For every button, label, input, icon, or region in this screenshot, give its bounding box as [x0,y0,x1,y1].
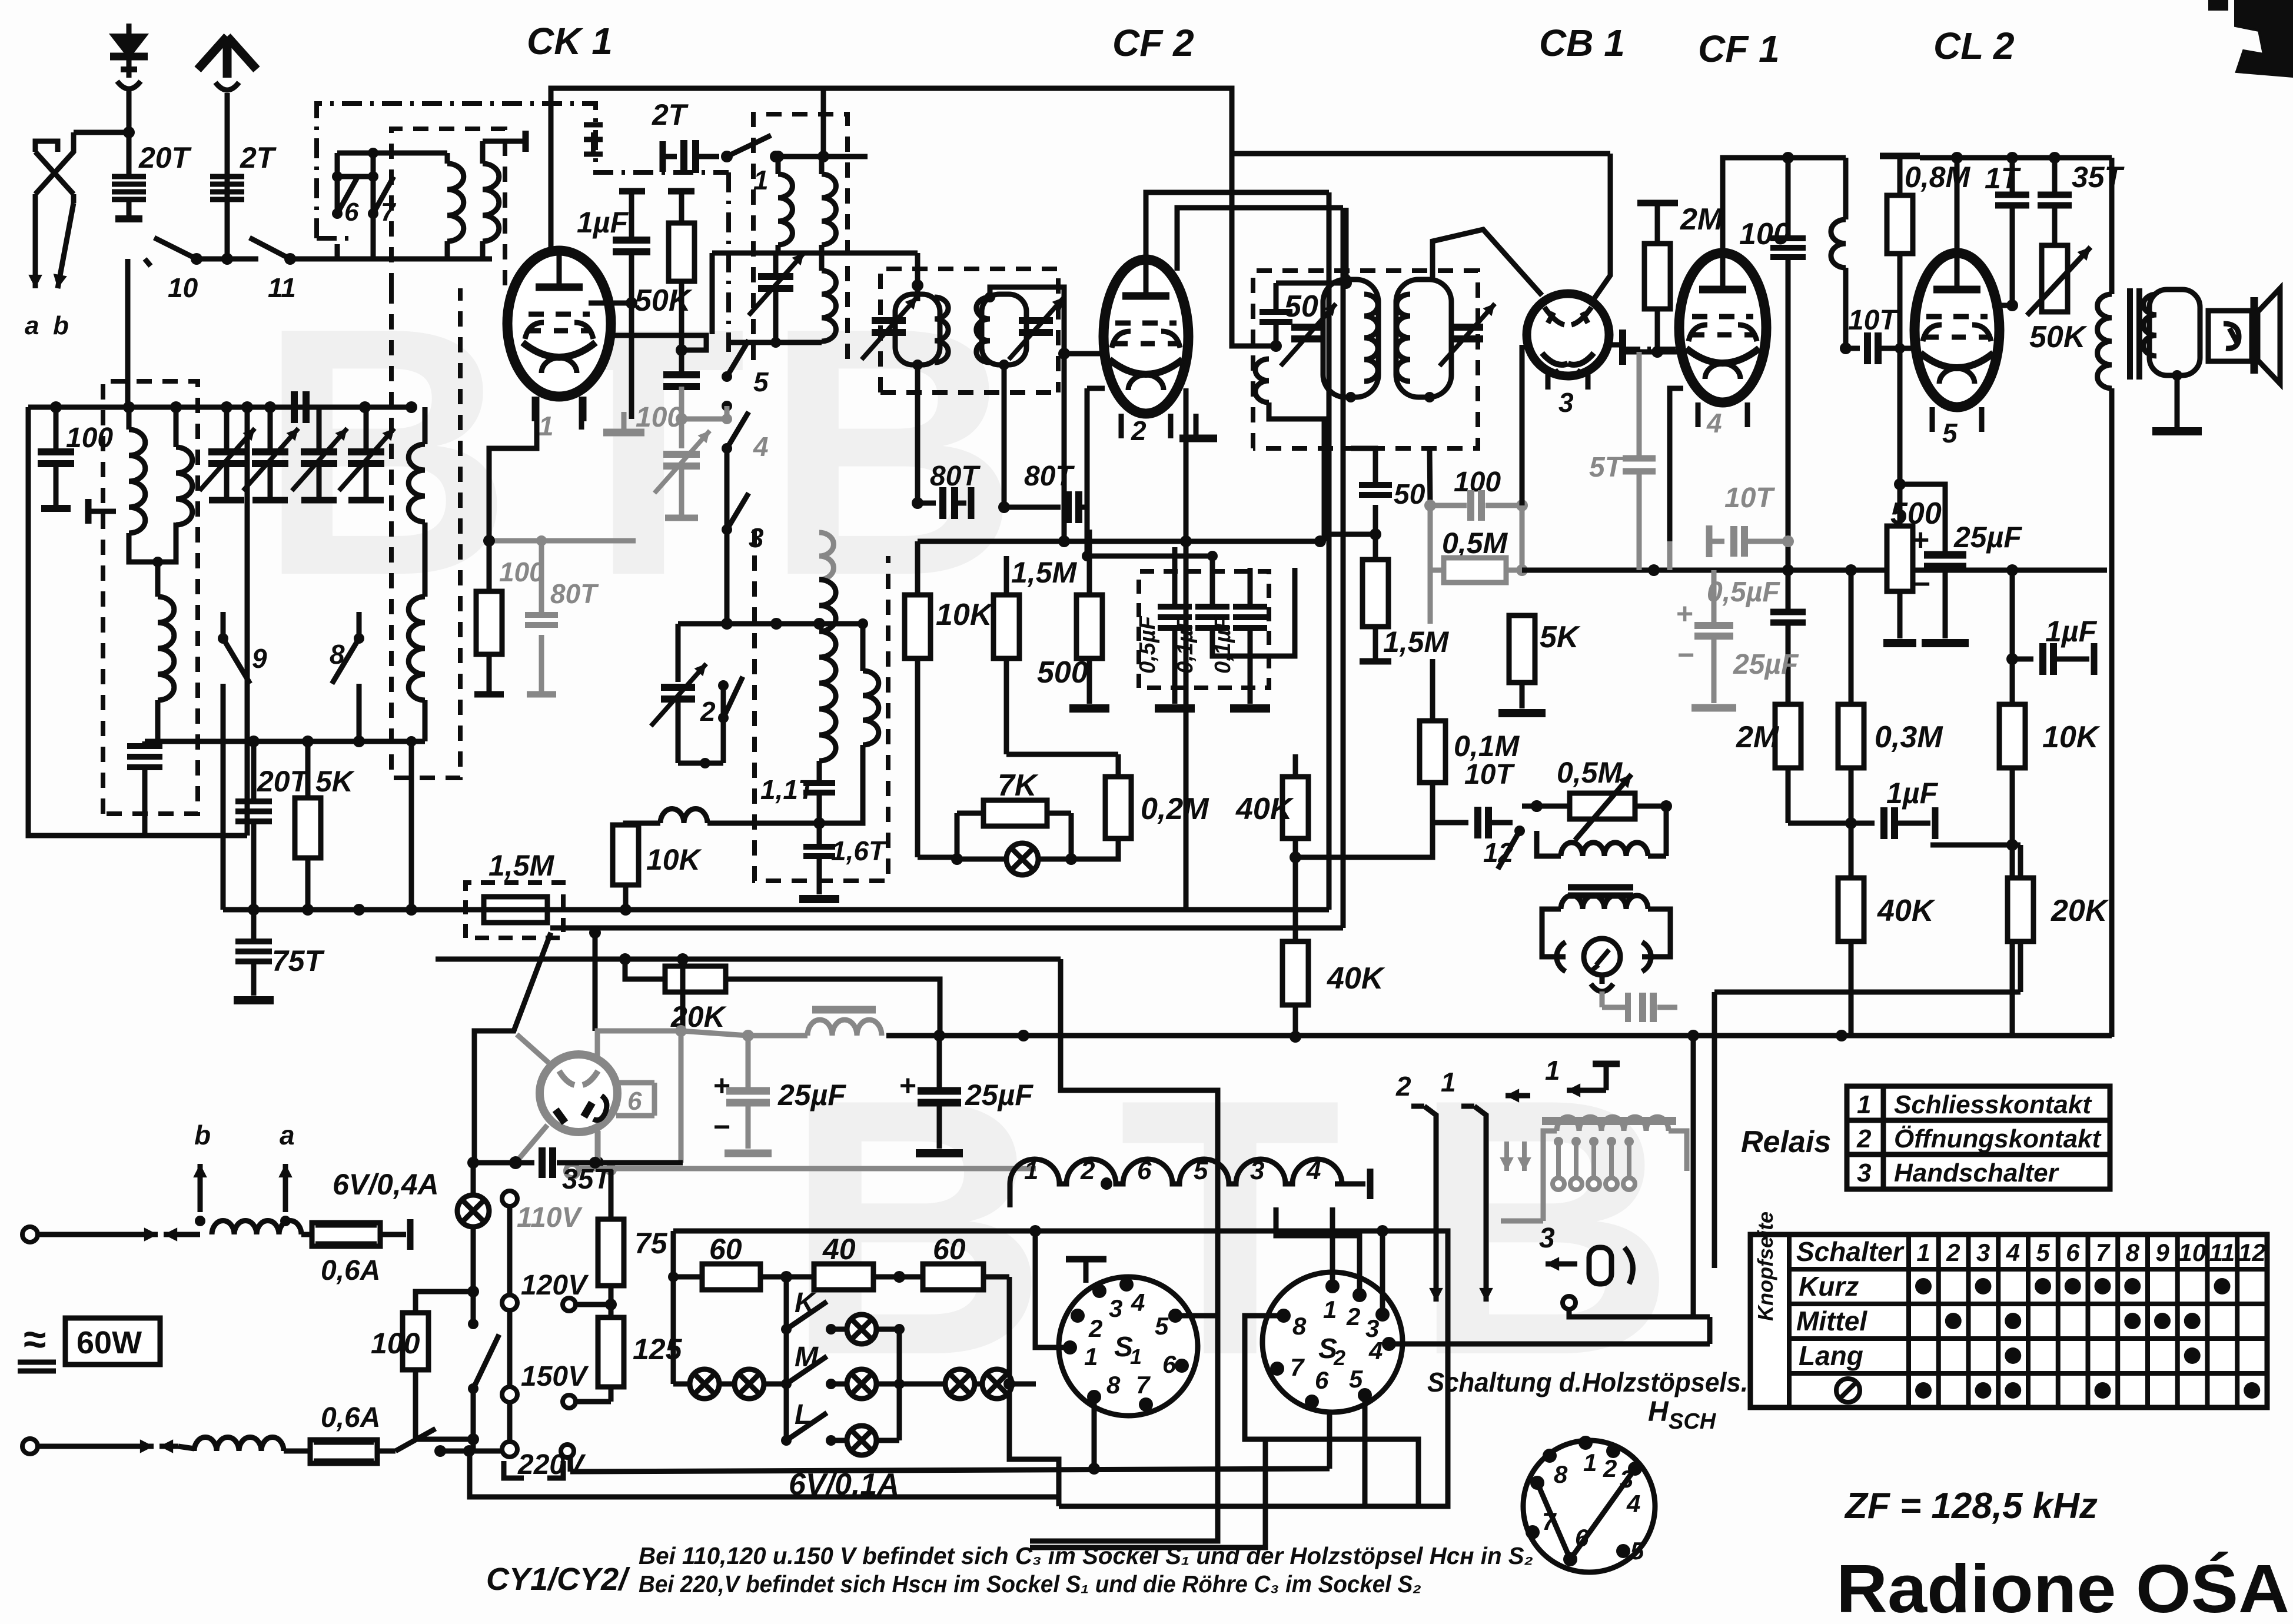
dots Mittel [1945,1313,1962,1329]
wire pot right down [1664,806,1669,856]
variable capacitor gang 2 [268,407,273,452]
svg-text:100: 100 [371,1327,420,1360]
svg-text:6V/0,4A: 6V/0,4A [333,1168,439,1201]
heater winding tap [1101,1178,1112,1190]
svg-text:100: 100 [499,557,544,587]
wire B3 jog down [1061,959,1218,1316]
speaker [2208,311,2252,361]
relay armature bar [1542,1117,1676,1125]
wire CF2 grid col a [1062,354,1067,541]
svg-text:0,3M: 0,3M [1875,720,1943,754]
resistor 20K [625,959,665,979]
svg-text:8: 8 [1554,1460,1568,1488]
svg-text:2M: 2M [1736,720,1780,754]
wire rect diag [516,1125,547,1163]
wire CB1 cathode down [1520,345,1525,505]
capacitor 0,5µF gray [1786,570,1791,612]
wire coils common row [158,739,425,744]
wire gray bus [681,1031,748,1036]
wire pot left down [1537,823,1557,856]
wire sw1 right [776,154,868,159]
antenna symbol [198,36,257,78]
variable capacitor gang 4 [364,407,369,452]
svg-text:120V: 120V [521,1270,589,1301]
output transformer primary [2109,158,2115,294]
resistor 1,5M [1004,556,1009,595]
capacitor 80T a [918,501,936,506]
svg-text:Mittel: Mittel [1796,1306,1867,1336]
svg-text:10: 10 [2178,1239,2206,1266]
choke bottom [194,1437,284,1451]
osc lower coil 1 (gray) [819,533,833,580]
svg-text:2: 2 [700,696,716,727]
svg-text:+: + [1676,597,1693,630]
IF2 trimmer primary [1291,324,1324,331]
svg-text:50K: 50K [634,284,693,318]
wire gray row right [541,538,636,544]
wire CB1 cathode left [1522,344,1527,345]
earth/aerial terminal symbol [112,35,145,56]
resistor 2M b [1787,660,1789,704]
choke top line [212,1221,301,1234]
wire long bus B3 [436,957,1061,962]
svg-text:CL 2: CL 2 [1933,25,2015,67]
wire [127,56,132,78]
svg-text:20K: 20K [2051,894,2109,928]
wire bus4 [1175,547,1295,548]
capacitor 1T [2010,158,2015,195]
wire left frame bottom [145,833,247,838]
trimmer padder (gray) [679,419,684,448]
svg-text:b: b [53,311,69,340]
dashed box tone caps [1139,571,1269,688]
wire 110V gray [579,1166,1036,1172]
wire osc lower tops [819,621,863,627]
arrow contact left [1506,1093,1530,1099]
potentiometer 0,5M [1570,793,1635,819]
resistor 20K b [2008,878,2033,941]
wire inner vertical [245,407,250,836]
terminal bar [1593,1061,1620,1067]
wire mains to selector [469,1449,510,1454]
terminal bar [1637,200,1678,207]
svg-text:≈: ≈ [24,1316,46,1362]
wire CF2 aux [1177,208,1343,271]
resistor 0,2M [1116,754,1121,777]
wire S2 pin7 [1260,1369,1277,1439]
wire lamps out [1003,1378,1015,1390]
svg-text:1: 1 [1583,1449,1597,1476]
svg-text:4: 4 [1626,1490,1640,1517]
wire lamp right [1071,754,1118,859]
wire long bus AVC [550,926,1343,931]
wire grid link [1064,351,1105,357]
wire relay frame [1693,1037,1710,1317]
svg-text:5: 5 [1630,1537,1644,1565]
coil CF1 plate [1843,158,1849,219]
wire CL2 grid [2000,303,2012,308]
svg-text:10: 10 [168,272,198,303]
dashed box IF transformer 2 [1253,271,1478,448]
svg-text:Knopfseite: Knopfseite [1753,1212,1777,1321]
svg-text:0,1µF: 0,1µF [1211,615,1235,674]
svg-text:a: a [280,1120,295,1150]
wire CK1 pin to 100 [489,430,537,591]
wire pot feed [1522,804,1570,809]
terminal bar S1 [1066,1256,1106,1263]
svg-text:5K: 5K [315,765,355,798]
pilot lamp 6V 0,4A [457,1195,489,1227]
svg-text:60W: 60W [77,1325,142,1360]
wire IF2 primary top [1276,281,1346,286]
wire CF1 plate top [1723,158,1846,253]
svg-text:2: 2 [1088,1314,1102,1342]
svg-text:Bei 110,120 u.150 V befindet s: Bei 110,120 u.150 V befindet sich C₃ im … [639,1542,1533,1569]
svg-text:40K: 40K [1327,961,1385,996]
resistor 40K a [1293,754,1298,777]
capacitor 50 (to gnd) [1359,482,1392,488]
lamp K [831,1327,846,1332]
switch mains [396,1429,436,1451]
capacitor 0,1µF a [1210,556,1215,607]
svg-text:8: 8 [330,639,345,670]
svg-text:60: 60 [709,1233,742,1266]
resistor 10K b [2010,570,2015,704]
svg-text:40K: 40K [1877,894,1936,928]
svg-text:80T: 80T [1024,461,1075,492]
socket S2 pins [1325,1279,1340,1293]
wire gray node row [489,538,541,544]
svg-text:11: 11 [2209,1239,2235,1266]
wire S2 pin5 down [1265,1395,1365,1548]
wire CB1 out bar [1609,342,1623,348]
wire coil3 bottom [145,700,158,741]
filter choke [807,1020,882,1036]
wire speaker link [2200,311,2213,312]
wire top bus right [1920,155,2112,161]
lamps series right [899,1382,945,1387]
wire hook down [1600,991,1605,1007]
resistor 10K [915,541,920,595]
antenna coupling coil a [447,164,464,241]
switch 8 [354,633,364,644]
wire CK1 plate top [551,88,1232,255]
wire 1.5M bottom [1006,752,1118,757]
svg-text:5: 5 [1942,418,1958,448]
wire coil b bottom [483,241,492,259]
wire long bus B4 [886,1033,2112,1039]
svg-text:150V: 150V [521,1361,589,1392]
wire bus 1686 [1714,990,2021,995]
svg-text:4: 4 [753,431,769,462]
wire CF2 screen [1147,406,1148,754]
output transformer secondary [2149,289,2200,375]
wire long bus B1 [28,909,223,910]
wire [301,1232,312,1237]
capacitor 80T gray [539,541,544,615]
band coil right lower [408,597,425,700]
crossover connector [35,132,74,194]
capacitor 25µF gray [1712,570,1717,625]
wire IF2 sec top diagonal to CB1 [1433,229,1542,295]
svg-text:6: 6 [344,198,359,227]
wire 0.1M top [1430,659,1435,721]
switch M [781,1379,792,1389]
wire relay frame2 [1712,992,1717,1268]
wire vibrator stem [1600,975,1605,984]
svg-text:b: b [194,1120,211,1150]
lamp matrix frame [671,1231,676,1384]
wire bus3 [1006,556,1175,568]
dashed box oscillator coils [753,114,848,360]
potentiometer 50K [2042,245,2068,312]
switch 12 [1514,826,1525,836]
wire lamp feed [471,1163,476,1196]
svg-text:3: 3 [1976,1239,1990,1266]
wire heater bus [473,1160,534,1166]
IF1 trimmer right [1019,317,1053,324]
svg-text:1: 1 [1441,1067,1456,1097]
svg-text:1,5M: 1,5M [488,849,555,882]
fuse 0,6A bottom [310,1440,377,1463]
wire vert col a down [1327,192,1332,910]
svg-text:75: 75 [634,1227,668,1260]
wire primary top up [1344,208,1349,279]
wire CF2 anode down [1184,388,1189,910]
svg-text:2: 2 [1333,1346,1345,1370]
resistor 75 [609,1170,614,1219]
wire vert from bus [409,741,414,910]
switch K [781,1324,792,1335]
wire row 1297 [678,761,723,766]
Y hook [1591,984,1613,991]
svg-text:10K: 10K [646,843,703,876]
switch 7 [368,171,378,182]
svg-text:2M: 2M [1680,202,1724,237]
terminal bar [1880,153,1920,159]
dash-dot box lower edge [317,236,355,241]
capacitor 25µF a [746,1036,751,1091]
svg-text:50: 50 [1284,289,1318,324]
dashed box antenna tank [103,381,198,814]
wire to pot [1520,823,1537,831]
wire S2 pin8 left [1245,1316,1418,1504]
svg-text:−: − [713,1110,730,1143]
svg-text:4: 4 [1368,1337,1383,1365]
wire IF2 prim bottom down [1350,397,1351,448]
wire CB1 to CF1 dashdot [1623,347,1682,351]
wire matrix feed [511,1508,673,1509]
svg-text:M: M [795,1342,819,1373]
resistor 5K b [1521,570,1523,615]
ground osc [799,895,839,903]
mains terminal bottom [22,1439,38,1454]
svg-text:1: 1 [1857,1090,1871,1119]
svg-text:5: 5 [1349,1365,1363,1393]
wire S2 pin6 [1311,1402,1312,1436]
svg-text:1: 1 [1323,1296,1337,1323]
terminal bar gray [665,515,698,521]
wire osc coil2 bottom [819,745,863,823]
ground 5K [1498,709,1546,717]
svg-text:4: 4 [1706,408,1722,438]
dots Lang [2005,1347,2021,1364]
wire sw col [725,448,730,530]
variable capacitor gang 3 [317,407,322,452]
schalter table inner lines [1789,1267,2267,1272]
wire CK1 cathode [611,335,706,350]
resistor 0,5M [1428,505,1433,570]
antenna tank coil 2 [176,447,192,525]
wire from sw3 down [725,577,730,624]
wire S1 pin1 [1035,1231,1070,1347]
svg-text:0,5µF: 0,5µF [1707,577,1780,608]
wire CF1 grid row [1683,351,1723,352]
schalter table frame [1750,1234,2267,1407]
wire corner [821,88,826,157]
coil 10K small [660,809,707,823]
switch mains parallel [471,1292,476,1324]
wire CK1 grid [589,301,632,306]
svg-text:0,6A: 0,6A [321,1402,380,1433]
wire handswitch [1568,1289,1570,1300]
terminal bar [474,691,504,698]
wire S1 pin8 [1092,1397,1097,1469]
wire IF2 sec bottom down [1429,397,1430,448]
wire 50cap node row [1327,532,1375,537]
switch 1 [721,151,733,162]
socket HSCH [1523,1440,1655,1572]
band coil right (in dashed box) [408,444,425,522]
wire [54,508,58,511]
capacitor 10T b [1433,808,1460,809]
resistor 0,1M [1432,715,1433,721]
svg-text:4: 4 [2006,1239,2020,1266]
trimmer osc 2 [676,624,681,682]
wire down from sw10 node [125,259,131,407]
svg-text:50: 50 [1394,479,1425,510]
capacitor 100 CF1 [1786,158,1791,238]
dashed box IF transformer 1 [880,269,1058,392]
wire coil a bottom [445,241,450,259]
wire node down 1,5M [1373,534,1378,560]
resistor 2M [1655,203,1660,244]
svg-text:2: 2 [1346,1303,1360,1330]
resistor 50K [679,191,684,223]
wire [471,1226,476,1292]
svg-text:2T: 2T [652,98,689,131]
wire lamp bottom loop [957,865,1295,896]
contact arrow 1 [1474,1106,1486,1265]
heater winding [1010,1159,1342,1184]
svg-text:40: 40 [822,1233,856,1266]
wire 50 node [1264,344,1276,349]
svg-text:3: 3 [1558,387,1574,418]
switch L [781,1435,792,1446]
wire bus2 [1087,554,1212,559]
svg-text:20T: 20T [257,765,311,798]
selector common line [507,1206,513,1442]
switch 9 [218,633,228,644]
osc coil 1 [778,174,792,245]
relay coil gray [1557,1117,1669,1131]
svg-text:CB 1: CB 1 [1539,22,1625,64]
wire bottom rail [470,1451,1059,1497]
switch 10 [191,253,202,265]
filter choke bar [812,1006,876,1014]
lamp L [831,1438,846,1443]
wire selector down [471,1439,476,1451]
wire pot wiper node [2012,305,2027,315]
wire CB1 feed drop [1591,154,1610,302]
svg-text:−: − [1913,567,1930,601]
svg-text:1: 1 [1545,1055,1560,1086]
tank coil D (dashed box left) [148,595,153,601]
wire 40K top [1295,706,1296,754]
capacitor 80T b [1004,505,1061,510]
wire bus [918,539,1320,544]
switch 4 [722,443,732,454]
svg-text:1µF: 1µF [2045,615,2098,648]
relais table frame [1847,1086,2110,1189]
capacitor 1,1T [817,761,822,783]
switch 5 [722,371,732,382]
svg-text:7: 7 [381,198,397,227]
wire 120V tap [576,1302,611,1307]
ground [1883,639,1916,647]
socket S1 [1059,1277,1198,1416]
wire heater wind tap [1101,1177,1112,1188]
tube CL2 [1915,253,1999,407]
capacitor 100 (cathode) [663,371,700,378]
relay pins [1556,1142,1561,1177]
wire CF2 grid col b [1085,388,1090,556]
terminal 220V tap [561,1445,574,1457]
antenna coupling coil b [483,164,499,241]
selector bottom bracket [504,1461,524,1478]
label 6 box [616,1080,654,1086]
svg-text:1,6T: 1,6T [831,836,888,866]
svg-text:2: 2 [1856,1124,1872,1153]
wire bus 2496 up [1312,1402,1330,1469]
svg-text:3: 3 [1539,1223,1555,1254]
lamp row symbol [1836,1379,1860,1402]
terminal bar [41,505,71,512]
resistor 100 screen [476,591,502,654]
gray 10T cap [1707,539,1724,544]
wire relay bottom [1569,1310,1693,1317]
wire vert col b down [1341,208,1346,928]
wire antenna junction [74,130,129,135]
svg-text:10T: 10T [1724,482,1775,514]
wire pot left [1513,822,1537,823]
relay drive coil [1536,823,1537,841]
svg-text:1,5M: 1,5M [1011,556,1078,589]
rectifier socket C3 [540,1054,617,1132]
wire 40K bridge right [1295,808,1433,857]
terminal bar [668,188,694,195]
gray contact arrows [1504,1142,1509,1171]
wire [377,1449,396,1454]
terminal bar [407,1219,414,1250]
switch 6 [332,171,343,182]
trimmer osc [773,253,779,277]
wire bottom bus [223,907,466,913]
ground CK1 pin [622,412,627,430]
svg-text:7: 7 [2096,1239,2111,1266]
tube CB1 [1527,294,1609,376]
wire matrix right edge [1009,1277,1059,1459]
